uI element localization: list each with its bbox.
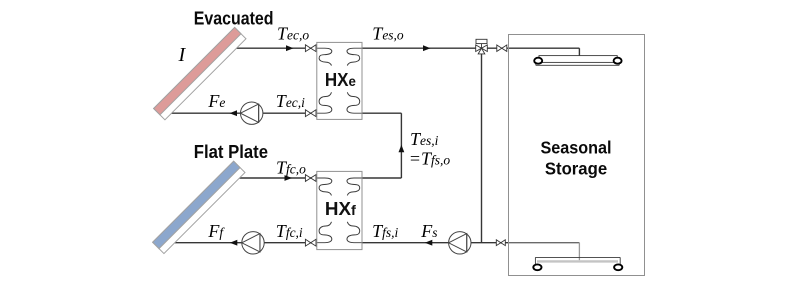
coil bottom-right bbox=[347, 222, 362, 243]
heat exchanger HXe (evacuated loop) bbox=[317, 42, 362, 119]
svg-text:Storage: Storage bbox=[545, 158, 608, 178]
wire: storage top inlet pipe inside tank bbox=[509, 47, 580, 49]
coil top-right bbox=[347, 48, 362, 65]
svg-text:Fs: Fs bbox=[420, 221, 437, 241]
arrow: Tfc,o flow right bbox=[285, 175, 293, 181]
pump Fe-loop bbox=[241, 102, 263, 124]
wire: HXe bottom-right to vertical riser bbox=[362, 112, 401, 114]
wire: riser Tes,i = Tfs,o bbox=[400, 113, 402, 178]
3-way diverting valve with actuator bbox=[476, 39, 488, 54]
svg-text:Tec,i: Tec,i bbox=[276, 91, 305, 111]
wire: evacuated collector outlet to HXe (Tec,o) bbox=[237, 47, 317, 49]
wire: HXe top outlet to storage (Tes,o) bbox=[362, 47, 509, 49]
wire: storage bottom pipe inside tank bbox=[509, 242, 580, 244]
coil bottom-right bbox=[347, 92, 362, 113]
valve storage bottom bbox=[496, 240, 505, 246]
bottom immersed heat exchanger element bbox=[535, 257, 620, 264]
arrow: riser flow up bbox=[399, 145, 405, 153]
svg-text:Tes,o: Tes,o bbox=[372, 23, 404, 43]
wire: HXf top-right to riser bbox=[362, 177, 401, 179]
arrow: Tec,o flow right bbox=[286, 45, 294, 51]
svg-text:Tfs,i: Tfs,i bbox=[372, 221, 398, 241]
seasonal storage tank bbox=[509, 35, 645, 276]
svg-text:Tfc,o: Tfc,o bbox=[276, 157, 306, 177]
coil bottom-left bbox=[317, 92, 332, 113]
svg-text:Seasonal: Seasonal bbox=[540, 137, 611, 157]
svg-text:Fe: Fe bbox=[207, 91, 225, 111]
valve HXe outlet bbox=[305, 110, 316, 117]
coil top-left bbox=[317, 48, 332, 65]
svg-text:Ff: Ff bbox=[207, 221, 225, 241]
heat exchanger HXf (flat plate loop) bbox=[317, 171, 362, 249]
svg-text:Evacuated: Evacuated bbox=[194, 9, 274, 29]
svg-text:Flat Plate: Flat Plate bbox=[194, 142, 268, 162]
arrow: Tec,i flow left bbox=[230, 110, 238, 116]
wire: storage bottom outlet to HXf (Tfs,i / Fs) bbox=[362, 242, 509, 244]
valve HXf inlet bbox=[305, 175, 316, 182]
svg-text:HXe: HXe bbox=[325, 70, 356, 90]
coil top-left bbox=[317, 178, 332, 195]
coil top-right bbox=[347, 178, 362, 195]
svg-text:I: I bbox=[178, 44, 187, 66]
wire: 3-way valve bypass down leg bbox=[481, 54, 483, 243]
arrow: Fs flow left bbox=[425, 240, 433, 246]
svg-text:Tes,i: Tes,i bbox=[410, 129, 439, 149]
pump Fs-loop bbox=[449, 232, 471, 254]
svg-text:Tec,o: Tec,o bbox=[277, 23, 309, 43]
pump Ff-loop bbox=[242, 232, 264, 254]
wire: HXf bottom return to flat plate (Tfc,i) bbox=[175, 242, 317, 244]
valve HXe inlet bbox=[305, 45, 316, 52]
evacuated-tube solar collector panel bbox=[154, 27, 246, 119]
valve storage top bbox=[497, 45, 507, 51]
wire: flat plate outlet to HXf (Tfc,o) bbox=[239, 177, 317, 179]
wire: HXe bottom return to evacuated collector (Tec,i) bbox=[171, 112, 317, 114]
flat-plate solar collector panel bbox=[153, 161, 245, 253]
svg-text:=Tfs,o: =Tfs,o bbox=[409, 148, 451, 168]
top immersed heat exchanger element bbox=[536, 56, 619, 66]
arrow: Tfc,i flow left bbox=[230, 240, 238, 246]
svg-text:HXf: HXf bbox=[325, 199, 356, 219]
valve HXf outlet bbox=[305, 239, 316, 246]
coil bottom-left bbox=[317, 222, 332, 243]
svg-text:Tfc,i: Tfc,i bbox=[276, 221, 303, 241]
arrow: Tes,o flow right bbox=[423, 45, 431, 51]
